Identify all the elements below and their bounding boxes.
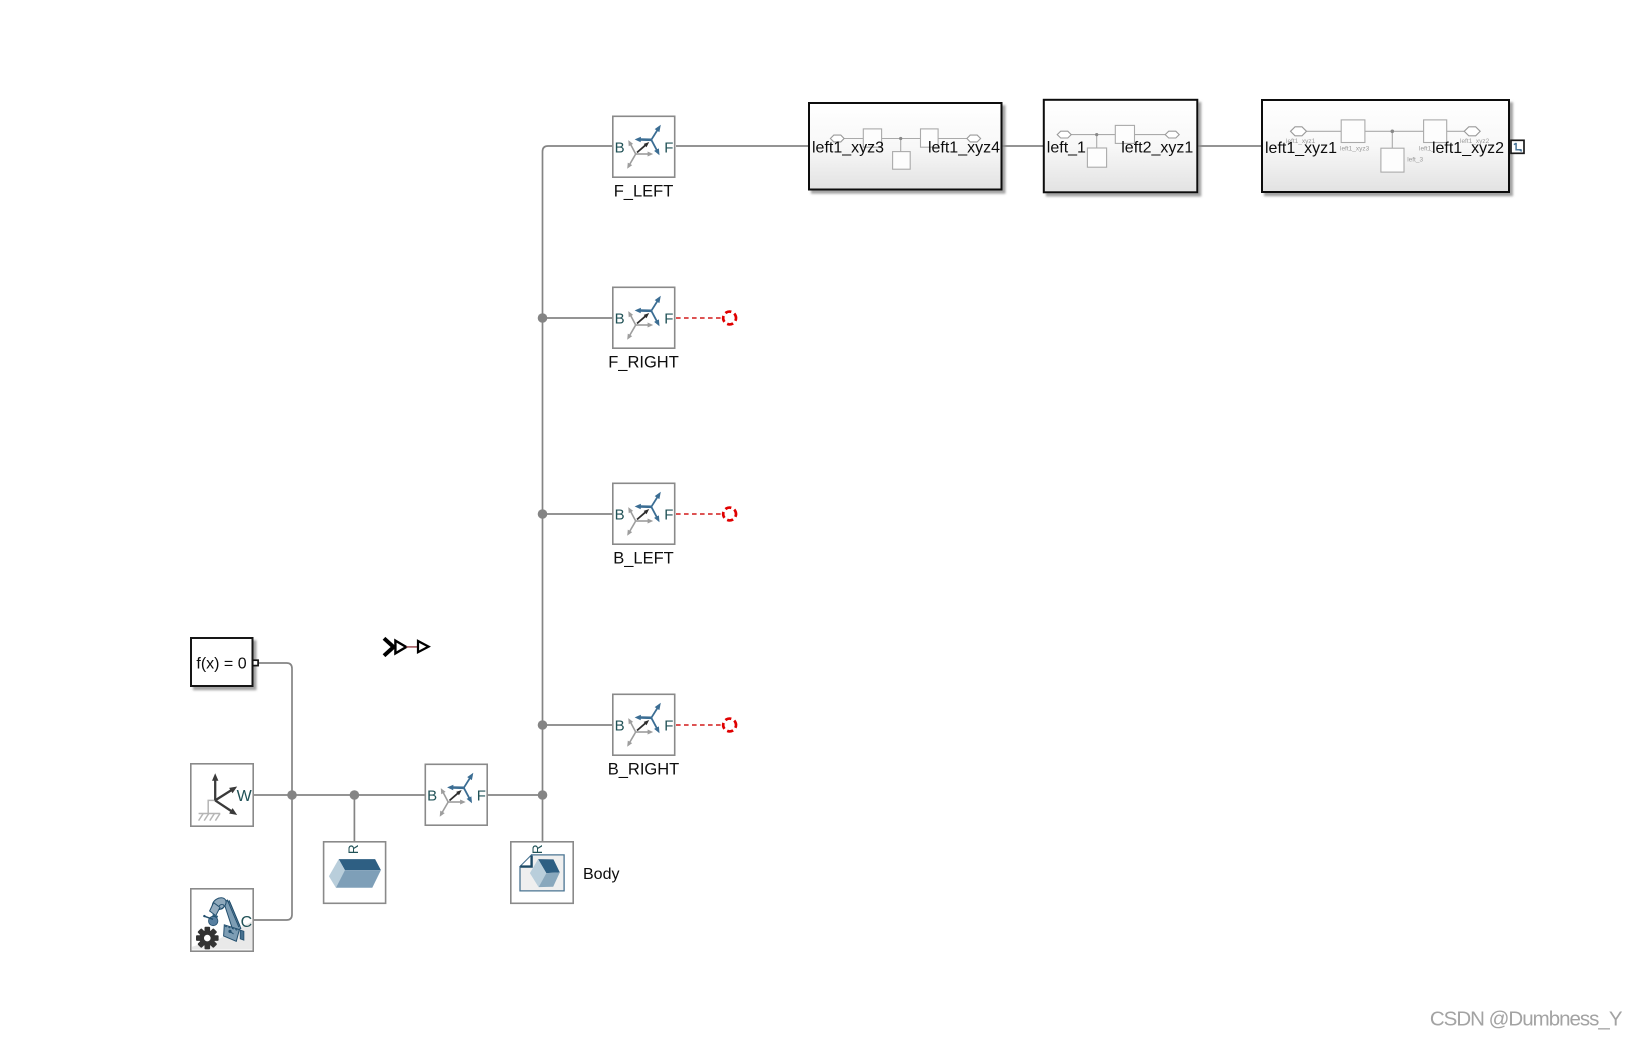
solver block f(x) = 0	[191, 638, 258, 686]
rigid transform F_LEFT	[613, 116, 675, 200]
svg-text:R: R	[530, 844, 545, 854]
svg-text:C: C	[241, 914, 253, 931]
brick solid block R	[324, 842, 386, 904]
junction (542.5,725)	[538, 720, 548, 730]
svg-text:left_1: left_1	[1047, 140, 1086, 157]
junction (542.5,514)	[538, 509, 548, 519]
svg-text:left1_xyz1: left1_xyz1	[1265, 140, 1337, 157]
wire: Solver f(x)=0 to Mechanism Configuration C-port	[254, 663, 292, 920]
wire: drop to Brick Solid R-port	[353, 795, 355, 841]
file solid block Body	[511, 842, 573, 904]
junction (542.5,318)	[538, 313, 548, 323]
wire: trunk to B_RIGHT	[543, 724, 613, 726]
svg-text:B_RIGHT: B_RIGHT	[608, 761, 680, 779]
wire: trunk to F_RIGHT	[543, 317, 613, 319]
svg-text:CSDN @Dumbness_Y: CSDN @Dumbness_Y	[1430, 1008, 1623, 1031]
svg-text:Body: Body	[583, 866, 619, 883]
wire: open frame connection (red dashed) at y=725	[676, 724, 723, 726]
svg-text:left2_xyz1: left2_xyz1	[1121, 140, 1193, 157]
rigid transform F_RIGHT	[608, 287, 679, 371]
wire: trunk from F_LEFT B-port down to Body	[543, 146, 613, 841]
rigid transform (unnamed, base)	[425, 764, 487, 825]
svg-text:B_LEFT: B_LEFT	[613, 550, 674, 568]
wire: subsystem2 to subsystem3	[1198, 145, 1261, 147]
mechanism configuration block C	[191, 889, 253, 951]
svg-text:R: R	[346, 844, 361, 854]
svg-text:left1_xyz3: left1_xyz3	[1340, 146, 1370, 153]
wire: transform F-port to trunk	[488, 794, 543, 796]
wire: subsystem1 to subsystem2	[1003, 145, 1044, 147]
orphan line indicator (chevron + triangles)	[384, 638, 429, 655]
world frame block W	[191, 764, 253, 826]
frame port badge on subsystem 3	[1511, 140, 1524, 153]
subsystem left1_xyz3 / left1_xyz4	[809, 103, 1002, 190]
svg-text:F_LEFT: F_LEFT	[614, 183, 674, 201]
wire: trunk to B_LEFT	[543, 513, 613, 515]
junction (292,795)	[287, 790, 297, 800]
svg-text:left1_xyz4: left1_xyz4	[928, 140, 1000, 157]
subsystem left1_xyz1 / left1_xyz2	[1262, 100, 1509, 192]
rigid transform B_LEFT	[613, 483, 675, 567]
junction (542.5,795)	[538, 790, 548, 800]
wire: open frame connection (red dashed) at y=318	[676, 317, 723, 319]
wire: F_LEFT to subsystem left1_xyz3	[676, 145, 808, 147]
wire: open frame connection (red dashed) at y=514	[676, 513, 723, 515]
svg-text:W: W	[237, 788, 253, 805]
svg-text:f(x) = 0: f(x) = 0	[196, 656, 246, 673]
rigid transform B_RIGHT	[608, 694, 680, 778]
subsystem left_1 / left2_xyz1	[1044, 100, 1198, 193]
svg-text:left1_xyz3: left1_xyz3	[812, 140, 884, 157]
svg-text:left1_xyz2: left1_xyz2	[1432, 140, 1504, 157]
svg-text:F_RIGHT: F_RIGHT	[608, 354, 679, 372]
junction (354.4,795)	[350, 790, 360, 800]
wire: World W-port to transform B-port	[254, 794, 425, 796]
svg-text:left_3: left_3	[1407, 157, 1423, 164]
